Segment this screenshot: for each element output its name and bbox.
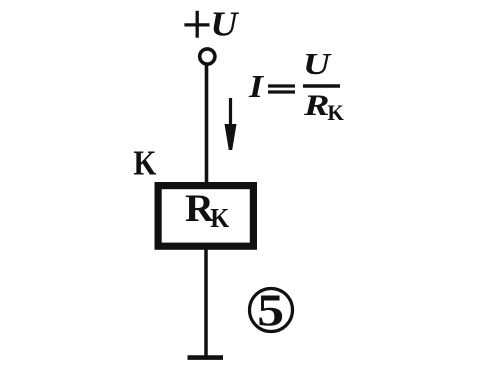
svg-text:K: K bbox=[133, 144, 156, 183]
svg-text:K: K bbox=[210, 203, 229, 233]
svg-text:5: 5 bbox=[257, 285, 284, 335]
svg-text:K: K bbox=[327, 100, 344, 125]
svg-text:I: I bbox=[248, 69, 265, 104]
svg-text:R: R bbox=[303, 89, 330, 122]
svg-text:U: U bbox=[303, 46, 332, 81]
svg-text:U: U bbox=[210, 5, 239, 44]
